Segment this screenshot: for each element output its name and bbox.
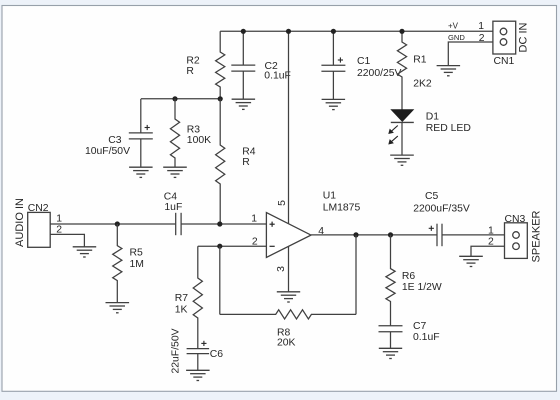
- svg-text:1: 1: [251, 213, 257, 224]
- svg-text:+V: +V: [448, 22, 459, 31]
- svg-text:2200uF/35V: 2200uF/35V: [413, 204, 470, 215]
- label C3 plus: [145, 125, 150, 130]
- wire R2-bottom node: [141, 98, 220, 100]
- svg-text:AUDIO IN: AUDIO IN: [14, 198, 26, 247]
- svg-text:GND: GND: [448, 33, 465, 42]
- svg-text:RED LED: RED LED: [426, 123, 471, 134]
- label D1 value: [426, 111, 471, 134]
- ground under CN3: [459, 256, 483, 266]
- svg-text:R1: R1: [413, 55, 427, 66]
- diode D1: [390, 109, 414, 155]
- ground under CN1: [437, 66, 461, 76]
- node junction pin2/R8: [217, 244, 222, 249]
- svg-text:1E 1/2W: 1E 1/2W: [402, 282, 442, 293]
- label U1 pin4: [318, 226, 324, 237]
- node junction C2 top: [241, 29, 246, 34]
- label C6 value: [210, 349, 224, 360]
- capacitor C3: [129, 99, 153, 167]
- node junction R1 top: [399, 29, 404, 34]
- label R2 value: [186, 55, 200, 77]
- wire C4 to U1: [181, 223, 266, 225]
- svg-text:1: 1: [478, 21, 484, 32]
- label CN2 pin2: [56, 225, 62, 236]
- svg-text:LM1875: LM1875: [323, 202, 361, 213]
- wire CN2 pin2 to ground: [50, 234, 84, 246]
- label R6 value: [402, 271, 442, 293]
- label U1 pin1: [251, 213, 257, 224]
- svg-text:22uF/50V: 22uF/50V: [171, 328, 182, 373]
- wire U1 pin2: [198, 245, 267, 247]
- label SPEAKER: [531, 210, 543, 262]
- label R1 value: [413, 55, 432, 90]
- label C1 plus: [338, 57, 343, 62]
- label U1 pin2: [252, 236, 258, 247]
- label C7 value: [413, 321, 440, 343]
- ground under C6: [186, 370, 210, 380]
- svg-text:R7: R7: [175, 293, 189, 304]
- svg-text:R: R: [186, 66, 194, 77]
- label AUDIO IN: [14, 198, 26, 247]
- svg-text:1M: 1M: [130, 259, 144, 270]
- svg-text:U1: U1: [323, 191, 337, 202]
- svg-text:100K: 100K: [187, 135, 211, 146]
- label CN3: [505, 214, 526, 225]
- wire U1 pin3: [288, 244, 290, 292]
- resistor R3: [170, 99, 179, 167]
- label CN2: [28, 203, 49, 214]
- label D1 arrows: [388, 126, 398, 145]
- label CN1 pin2: [479, 33, 485, 44]
- svg-text:R6: R6: [402, 271, 416, 282]
- svg-text:3: 3: [276, 266, 287, 272]
- wire CN3 pin2 to ground: [471, 246, 505, 256]
- label C6 plus: [201, 341, 206, 346]
- svg-text:C5: C5: [425, 191, 439, 202]
- label C3 value: [85, 135, 130, 157]
- label U1 pin5: [277, 200, 288, 206]
- resistor R7: [193, 246, 202, 348]
- svg-text:2: 2: [252, 236, 258, 247]
- node junction R2/R4: [218, 96, 223, 101]
- capacitor C6: [187, 349, 210, 371]
- svg-text:C4: C4: [164, 192, 178, 203]
- label R3 value: [187, 125, 211, 147]
- svg-text:1uF: 1uF: [164, 202, 182, 213]
- label CN1 pin1: [478, 21, 484, 32]
- svg-text:SPEAKER: SPEAKER: [531, 210, 543, 262]
- svg-text:D1: D1: [426, 111, 440, 122]
- svg-text:0.1uF: 0.1uF: [413, 332, 440, 343]
- connector CN1: [493, 21, 516, 54]
- label R7 value: [175, 293, 189, 315]
- label C6 rating: [171, 328, 182, 373]
- ground under CN2: [73, 247, 97, 257]
- ground under C2: [232, 99, 256, 109]
- node junction R3 top: [172, 96, 177, 101]
- svg-text:1: 1: [56, 214, 62, 225]
- ground under C3: [129, 167, 153, 177]
- label C5 value: [413, 191, 470, 215]
- label R4 value: [242, 147, 256, 169]
- resistor R8: [220, 310, 356, 319]
- ground under C7: [379, 348, 402, 358]
- svg-text:R4: R4: [242, 147, 256, 158]
- svg-text:1: 1: [488, 226, 494, 237]
- svg-text:5: 5: [277, 200, 288, 206]
- svg-text:C6: C6: [210, 349, 224, 360]
- node junction C1 top: [331, 29, 336, 34]
- node junction R6 top: [388, 232, 393, 237]
- ground under C1: [322, 99, 346, 109]
- label GND: [448, 33, 465, 42]
- resistor R6: [386, 235, 395, 326]
- connector CN2: [28, 212, 51, 247]
- node junction feedback: [353, 232, 358, 237]
- svg-text:CN3: CN3: [505, 214, 526, 225]
- label C2 value: [264, 61, 291, 81]
- label R5 value: [130, 248, 144, 270]
- node junction R4 bottom: [217, 221, 222, 226]
- label +V: [448, 22, 459, 31]
- capacitor C7: [379, 326, 403, 349]
- wire feedback right: [355, 235, 357, 315]
- resistor R4: [216, 99, 225, 224]
- wire feedback left: [219, 246, 221, 314]
- wire U1 output: [311, 234, 437, 236]
- wire C5 to CN3: [442, 234, 505, 236]
- label R8 value: [277, 328, 296, 349]
- svg-text:0.1uF: 0.1uF: [264, 70, 291, 81]
- resistor R5: [113, 224, 122, 303]
- svg-text:R3: R3: [187, 125, 201, 136]
- svg-text:R5: R5: [130, 248, 144, 259]
- svg-text:2200/25V: 2200/25V: [357, 68, 402, 79]
- label CN3 pin2: [488, 237, 494, 248]
- capacitor C5: [437, 224, 442, 247]
- svg-text:10uF/50V: 10uF/50V: [85, 146, 130, 157]
- svg-text:CN1: CN1: [494, 56, 515, 67]
- ground under R5: [106, 303, 130, 313]
- ground under pin3: [277, 292, 300, 302]
- resistor R1: [397, 31, 406, 109]
- label U1: [323, 191, 361, 214]
- wire +V rail: [220, 30, 493, 32]
- label C4 value: [164, 192, 183, 214]
- svg-text:2K2: 2K2: [413, 79, 432, 90]
- svg-text:CN2: CN2: [28, 203, 49, 214]
- label CN2 pin1: [56, 214, 62, 225]
- node junction pin5 rail: [286, 29, 291, 34]
- label DC IN: [518, 22, 530, 52]
- svg-text:C7: C7: [413, 321, 427, 332]
- resistor R2: [216, 31, 225, 99]
- capacitor C2: [231, 31, 255, 99]
- capacitor C1: [321, 31, 345, 99]
- wire CN2 pin1: [50, 223, 176, 225]
- svg-text:R: R: [242, 157, 250, 168]
- label CN3 pin1: [488, 226, 494, 237]
- capacitor C4: [176, 213, 181, 235]
- label CN1: [494, 56, 515, 67]
- svg-text:C3: C3: [108, 135, 122, 146]
- svg-text:R2: R2: [186, 55, 200, 66]
- svg-text:C1: C1: [357, 56, 371, 67]
- node junction R5 top: [115, 221, 120, 226]
- wire CN1 GND: [448, 42, 493, 66]
- wire U1 pin5: [288, 31, 290, 226]
- label C5 plus: [429, 226, 434, 231]
- svg-text:1K: 1K: [175, 304, 188, 315]
- ground under D1: [390, 155, 414, 165]
- label U1 pin3: [276, 266, 287, 272]
- connector CN3: [505, 223, 528, 259]
- svg-text:20K: 20K: [277, 338, 296, 349]
- ground under R3: [163, 167, 187, 177]
- svg-text:DC IN: DC IN: [518, 22, 530, 52]
- op-amp U1: [266, 213, 311, 258]
- label C1 value: [357, 56, 402, 79]
